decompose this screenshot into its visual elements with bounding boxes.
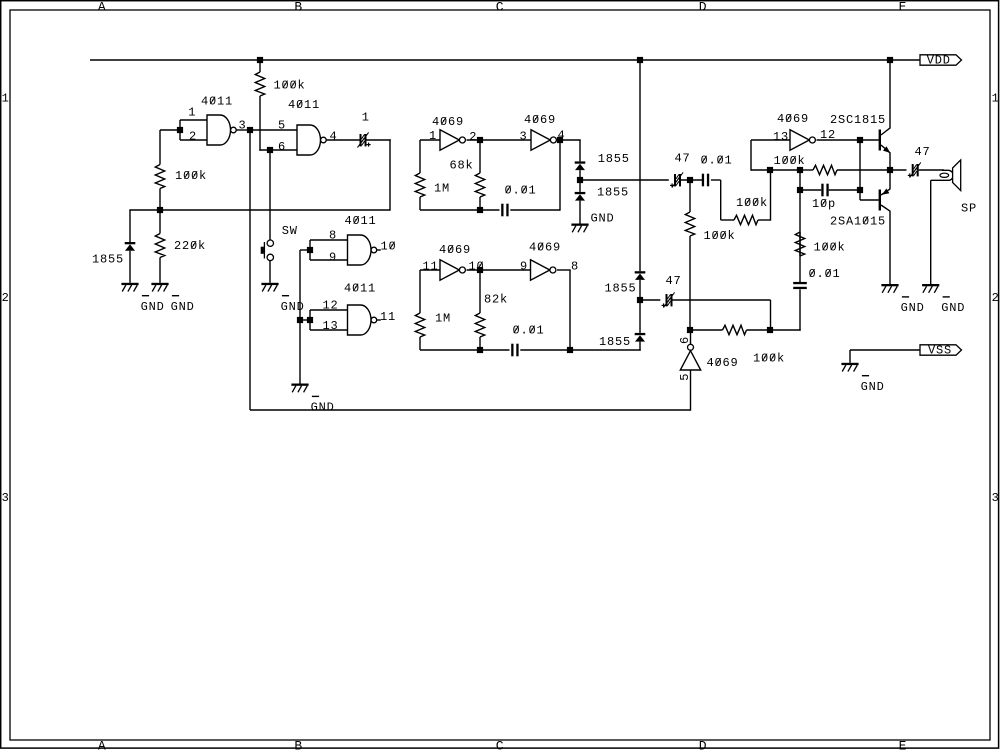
svg-text:4069: 4069 [524, 113, 556, 127]
svg-text:VDD: VDD [927, 53, 951, 67]
svg-text:GND: GND [311, 401, 335, 415]
wire D3 node to C6 [640, 299, 660, 301]
svg-text:4011: 4011 [345, 214, 377, 228]
op-amp U2a NAND 4011 [329, 214, 397, 265]
resistor R10 100k y330 [690, 325, 785, 365]
op-amp U3e inverter 4069 [773, 112, 836, 150]
op-amp U3f inverter 4069 pointing up [678, 330, 739, 381]
svg-text:GND: GND [171, 300, 195, 314]
node junction feedback node [767, 167, 773, 173]
svg-text:100k: 100k [274, 79, 306, 93]
svg-text:C: C [496, 739, 505, 750]
op-amp U3c inverter 4069 [423, 243, 485, 280]
resistor R12 100k y170 [774, 154, 891, 175]
wire Q2 emitter to node [889, 170, 891, 189]
node junction bus at gate4 [297, 317, 303, 323]
capacitor C1 1uF [357, 111, 370, 148]
wire drop to R10 row [770, 300, 772, 331]
wire R8 riser [770, 170, 772, 221]
wire y170 left segment [751, 169, 800, 171]
node junction pin3 [247, 127, 253, 133]
svg-text:E: E [899, 0, 908, 14]
wire osc2 bottom left [420, 349, 510, 351]
wire 10p to Q2 base jog [860, 190, 879, 200]
wire node to diode D5 [129, 209, 160, 211]
wire pin6 [259, 149, 297, 151]
svg-text:1855: 1855 [599, 335, 631, 349]
wire gate3 input tie [309, 240, 311, 260]
svg-text:D: D [699, 0, 708, 14]
wire gate3 tie to bus [300, 249, 311, 251]
wire switch top lead [269, 150, 271, 240]
svg-text:E: E [899, 739, 908, 750]
svg-text:3: 3 [2, 491, 10, 505]
wire gate1 output pin3 [237, 129, 251, 131]
svg-text:VSS: VSS [928, 343, 952, 357]
svg-text:6: 6 [678, 336, 692, 344]
svg-text:6: 6 [278, 140, 286, 154]
node junction mix1 [687, 177, 693, 183]
node junction on rail at Q1 collector [887, 57, 893, 63]
svg-text:2SC1815: 2SC1815 [830, 113, 886, 127]
wire Q1 emitter to node [889, 153, 891, 170]
wire gate2 output pin4 [327, 139, 360, 141]
svg-text:100k: 100k [774, 154, 806, 168]
svg-text:5: 5 [678, 373, 692, 381]
wire inv4 output [557, 269, 571, 271]
resistor R4 1M [415, 140, 450, 210]
wire x800 y170-190 [799, 170, 801, 190]
svg-text:9: 9 [329, 251, 337, 265]
ground under Q2 [881, 284, 924, 315]
op-amp U2b NAND 4011 [323, 282, 397, 336]
svg-text:GND: GND [591, 212, 615, 226]
svg-text:2: 2 [992, 291, 1000, 305]
node junction R5 bottom [477, 207, 483, 213]
op-amp U1b NAND 4011 [278, 98, 338, 155]
svg-text:10p: 10p [812, 197, 836, 211]
svg-text:47: 47 [675, 151, 691, 165]
node junction x800 y190 [797, 187, 803, 193]
node junction gate1 inputs [177, 127, 183, 133]
capacitor C6 47uF [662, 274, 682, 308]
resistor R7 82k [475, 270, 508, 350]
node junction R7 bottom [477, 347, 483, 353]
svg-text:2: 2 [189, 130, 197, 144]
svg-text:4069: 4069 [432, 115, 464, 129]
svg-text:4: 4 [330, 129, 338, 143]
node junction inv1 out [477, 137, 483, 143]
wire pin8 [310, 239, 348, 241]
wire pin12 [310, 309, 348, 311]
wire feedback bottom row y210 [160, 209, 390, 211]
diode D5 1855 [92, 210, 135, 283]
node junction osc2 right [567, 347, 573, 353]
wire R1 to pin6 row [259, 130, 261, 151]
svg-text:3: 3 [992, 491, 1000, 505]
svg-text:5: 5 [278, 119, 286, 133]
svg-text:100k: 100k [704, 229, 736, 243]
capacitor C9 47uF [908, 145, 931, 178]
svg-text:0.01: 0.01 [505, 184, 537, 198]
wire node to C9 [890, 169, 907, 171]
svg-text:11: 11 [380, 310, 396, 324]
wire switch bottom lead [269, 261, 271, 283]
node junction D3/D4 [637, 297, 643, 303]
capacitor C2 0.01 [501, 184, 536, 217]
wire C9 to speaker [919, 169, 944, 171]
svg-text:100k: 100k [175, 169, 207, 183]
wire gate1 input pin2 [180, 139, 207, 141]
svg-text:1: 1 [992, 91, 1000, 105]
wire base coupling vertical x860 [859, 140, 861, 190]
wire C5 drop [720, 180, 722, 220]
svg-text:4011: 4011 [201, 95, 233, 109]
svg-text:68k: 68k [450, 159, 474, 173]
svg-text:47: 47 [666, 274, 682, 288]
node junction gate3 inputs [307, 247, 313, 253]
wire osc1 bottom right [510, 209, 560, 211]
wire osc2 bottom mid [520, 349, 570, 351]
svg-text:4011: 4011 [288, 98, 320, 112]
wire C1 to riser [367, 139, 391, 141]
wire feedback vertical x250 [249, 130, 251, 410]
resistor R3 220k [155, 210, 206, 283]
op-amp U3a inverter 4069 [429, 115, 477, 150]
wire Q1 collector to rail [889, 60, 891, 128]
node junction on rail at R1 [257, 57, 263, 63]
ground under speaker [922, 284, 965, 315]
svg-text:SW: SW [282, 224, 298, 238]
wire y170 from inverter input riser [750, 140, 752, 171]
svg-text:GND: GND [941, 301, 965, 315]
node junction gate4 inputs [307, 317, 313, 323]
speaker SP [931, 160, 977, 216]
wire pin9 [310, 259, 348, 261]
svg-text:GND: GND [281, 300, 305, 314]
svg-text:100k: 100k [814, 241, 846, 255]
svg-text:A: A [98, 739, 107, 750]
svg-text:8: 8 [571, 260, 579, 274]
wire gate1 input pin1 [180, 119, 207, 121]
svg-text:1855: 1855 [92, 253, 124, 267]
wire inv1 input [420, 139, 440, 141]
wire gate3 output stub pin10 [377, 249, 381, 251]
svg-text:4011: 4011 [344, 282, 376, 296]
svg-text:4069: 4069 [529, 241, 561, 255]
wire VSS to ground [850, 350, 920, 363]
wire C4 to node [681, 179, 702, 181]
diode D1 1855 [575, 152, 630, 180]
svg-text:1855: 1855 [598, 152, 630, 166]
svg-text:8: 8 [329, 229, 337, 243]
svg-text:13: 13 [773, 130, 789, 144]
svg-text:220k: 220k [174, 239, 206, 253]
wire inv2 out to D1 [579, 140, 581, 161]
svg-text:2SA1015: 2SA1015 [830, 214, 886, 228]
svg-text:GND: GND [861, 380, 885, 394]
wire inv6 input [751, 139, 790, 141]
transistor Q2 2SA1015 PNP [830, 189, 890, 229]
capacitor C8 10p [800, 184, 860, 211]
svg-text:4069: 4069 [439, 243, 471, 257]
resistor R2 100k [155, 130, 207, 210]
svg-text:2: 2 [2, 291, 10, 305]
svg-text:B: B [294, 0, 303, 14]
svg-text:1855: 1855 [605, 281, 637, 295]
node junction R10 right [767, 327, 773, 333]
resistor R8 100k [721, 196, 771, 225]
svg-text:1M: 1M [435, 312, 451, 326]
svg-text:0.01: 0.01 [809, 267, 841, 281]
resistor R1 100k [255, 60, 305, 130]
wire osc1 bottom left [420, 209, 500, 211]
node junction 10p node [857, 187, 863, 193]
svg-text:1: 1 [429, 129, 437, 143]
node junction inv2 out [557, 137, 563, 143]
svg-text:1: 1 [188, 106, 196, 120]
wire to gate1 inputs [160, 129, 181, 131]
svg-text:SP: SP [961, 202, 977, 216]
ground for VSS [841, 363, 884, 394]
resistor R6 1M [415, 270, 451, 350]
wire VDD rail [90, 59, 920, 61]
resistor R9 100k vertical [685, 180, 735, 330]
wire rail to D3 [639, 60, 641, 271]
svg-text:4069: 4069 [707, 356, 739, 370]
wire osc1 right riser [559, 140, 561, 211]
svg-text:1855: 1855 [597, 185, 629, 199]
svg-text:1M: 1M [434, 182, 450, 196]
resistor R11 100k vertical x800 [795, 190, 845, 282]
node junction base drive [857, 137, 863, 143]
svg-text:C: C [496, 0, 505, 14]
ground under R3 [151, 283, 194, 314]
svg-text:0.01: 0.01 [513, 324, 545, 338]
node junction on rail at diode chain [637, 57, 643, 63]
node junction inv5 output [687, 327, 693, 333]
wire gate4 input tie [309, 310, 311, 330]
svg-text:3: 3 [520, 130, 528, 144]
capacitor C4 47uF [670, 151, 690, 187]
wire input bus vertical x300 [299, 250, 301, 384]
diode D4 1855 [599, 300, 645, 351]
power flag VSS [920, 343, 962, 357]
svg-text:82k: 82k [484, 293, 508, 307]
switch SW pushbutton [261, 224, 298, 261]
node junction x800 y170 [797, 167, 803, 173]
wire pin5 [250, 129, 297, 131]
ground under D2 [571, 212, 614, 233]
op-amp U3d inverter 4069 [520, 241, 579, 281]
svg-text:1: 1 [362, 111, 370, 125]
op-amp U1a NAND 4011 [188, 95, 246, 146]
node junction D1/D2 [577, 177, 583, 183]
svg-text:A: A [98, 0, 107, 14]
wire inv3 output to inv4 [467, 269, 531, 271]
transistor Q1 2SC1815 NPN [830, 113, 890, 153]
wire inv3 input [420, 269, 440, 271]
wire pin13 [310, 329, 348, 331]
svg-text:2: 2 [469, 130, 477, 144]
wire feedback horizontal y410 [250, 409, 691, 411]
diode D2 1855 [575, 180, 629, 224]
wire feedback right riser [389, 139, 391, 210]
svg-text:100k: 100k [753, 352, 785, 366]
svg-text:13: 13 [323, 319, 339, 333]
svg-text:12: 12 [323, 299, 339, 313]
wire C7 lower lead [799, 289, 801, 330]
wire inv2 output [558, 139, 581, 141]
capacitor C7 0.01 [793, 267, 840, 289]
wire Q2 collector to ground [889, 211, 891, 284]
wire D1 node to C4 [580, 179, 669, 181]
wire inv1 output to inv2 [467, 139, 532, 141]
op-amp U3b inverter 4069 [520, 113, 566, 150]
svg-text:0.01: 0.01 [701, 154, 733, 168]
wire inv6 output to Q1 base [817, 139, 879, 141]
svg-text:GND: GND [901, 301, 925, 315]
diode D3 1855 [605, 271, 646, 300]
svg-text:1: 1 [2, 91, 10, 105]
svg-text:47: 47 [915, 145, 931, 159]
resistor R5 68k [450, 140, 485, 210]
wire speaker return [930, 180, 932, 284]
wire gate4 output stub pin11 [377, 319, 381, 321]
wire osc2 right riser [569, 270, 571, 350]
node junction inv3 out [477, 267, 483, 273]
wire C6 right [673, 299, 771, 301]
capacitor C5 0.01 [701, 154, 733, 187]
svg-text:9: 9 [520, 260, 528, 274]
ground under switch [261, 283, 304, 314]
ground under gate input bus [291, 384, 334, 415]
wire gate1 input tie [179, 120, 181, 140]
svg-text:100k: 100k [736, 196, 768, 210]
capacitor C3 0.01 [511, 324, 544, 357]
svg-text:11: 11 [423, 260, 439, 274]
node junction R2/R3 [157, 207, 163, 213]
wire R10 to C7 branch [770, 329, 801, 331]
svg-text:4069: 4069 [777, 112, 809, 126]
wire gate4 tie to bus [300, 319, 311, 321]
wire osc2 bottom right to D4 [570, 349, 641, 351]
svg-text:GND: GND [141, 300, 165, 314]
svg-text:B: B [294, 739, 303, 750]
node junction pin6 / switch [267, 147, 273, 153]
wire C5 right [711, 179, 721, 181]
ground under D5 [121, 283, 164, 314]
svg-text:D: D [699, 739, 708, 750]
node junction output node [887, 167, 893, 173]
power flag VDD [920, 53, 962, 67]
wire feedback riser to inverter input [690, 370, 692, 411]
